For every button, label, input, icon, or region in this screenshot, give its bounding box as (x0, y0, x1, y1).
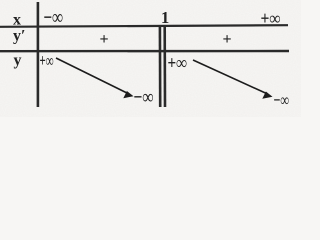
paper grain noise (0, 0, 301, 117)
y row right: decreasing arrow shaft (193, 60, 267, 94)
svg-text:y: y (14, 52, 22, 69)
y row left: arrowhead (123, 91, 133, 98)
horizontal rule under y' row (0, 50, 289, 53)
svg-text:−∞: −∞ (274, 90, 290, 110)
svg-text:y′: y′ (13, 28, 26, 45)
svg-text:+∞: +∞ (261, 8, 281, 29)
y row left: decreasing arrow shaft (56, 58, 128, 94)
y row right: arrowhead (262, 92, 272, 99)
svg-text:1: 1 (161, 8, 169, 27)
svg-text:−∞: −∞ (134, 85, 154, 107)
svg-text:+: + (100, 31, 109, 48)
paper background (0, 0, 301, 117)
svg-text:+∞: +∞ (40, 52, 54, 71)
double bar at x=1 (right stroke) (163, 27, 166, 108)
double bar at x=1 (left stroke) (159, 27, 162, 108)
svg-text:+: + (223, 31, 232, 48)
svg-text:x: x (13, 12, 21, 29)
horizontal rule under x row (0, 25, 288, 27)
svg-text:−∞: −∞ (44, 6, 63, 29)
vertical label-column rule (37, 2, 40, 107)
svg-text:+∞: +∞ (168, 52, 188, 73)
